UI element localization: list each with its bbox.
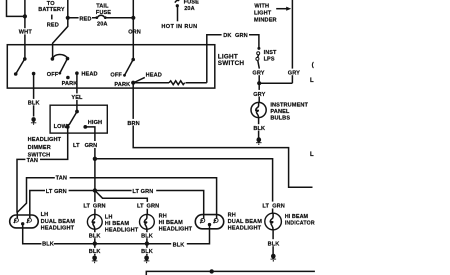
svg-text:GRN: GRN — [147, 204, 160, 210]
label BLK below bus RH — [140, 248, 153, 255]
label BLK above bus RH — [140, 232, 153, 239]
wire LT GRN to LH hi beam — [94, 159, 96, 215]
svg-text:FUSE: FUSE — [96, 10, 111, 16]
resistor rheostat — [133, 81, 207, 85]
svg-text:LT: LT — [73, 143, 80, 149]
svg-text:HEAD: HEAD — [81, 71, 97, 77]
wire BLK LH hi beam — [94, 229, 96, 255]
fuse TAIL FUSE 20A — [95, 4, 111, 28]
wire battery feed RED — [53, 0, 68, 59]
switch arm to HEAD (closed) — [133, 77, 145, 83]
svg-text:MINDER: MINDER — [254, 18, 277, 24]
label ORN — [128, 30, 141, 36]
node BLK pivot — [32, 72, 36, 76]
svg-text:PANEL: PANEL — [270, 109, 290, 115]
label INSTRUMENT PANEL BULBS — [270, 103, 308, 122]
label HI BEAM INDICATOR — [285, 214, 315, 226]
ground G101 — [31, 117, 36, 125]
wire LT GRN lower line — [30, 191, 204, 219]
svg-text:BLK: BLK — [253, 126, 265, 132]
svg-text:LH: LH — [105, 214, 113, 220]
wire WHT vertical — [24, 0, 26, 59]
headlight LH dual beam — [10, 215, 39, 228]
svg-text:HI BEAM: HI BEAM — [285, 214, 309, 220]
svg-text:HIGH: HIGH — [88, 120, 102, 126]
wire YEL to dimmer — [76, 73, 78, 111]
label BLK below bus LH — [88, 248, 101, 255]
svg-text:LT: LT — [262, 203, 269, 209]
node BLK junction LH — [93, 241, 97, 245]
label HEADLIGHT DIMMER SWITCH — [28, 137, 62, 158]
ground LH hi beam — [92, 255, 98, 263]
label INST LPS — [264, 50, 277, 62]
svg-text:DIMMER: DIMMER — [28, 145, 51, 151]
node LOW contact — [66, 125, 70, 129]
lamp instrument panel bulbs — [251, 102, 266, 117]
svg-text:HEADLIGHT: HEADLIGHT — [105, 228, 139, 234]
wire tail fuse feed — [68, 17, 96, 19]
wire BLK ground bus — [23, 224, 210, 244]
svg-text:LT GRN: LT GRN — [132, 189, 153, 195]
node junction RED feed — [66, 16, 70, 20]
svg-text:WHT: WHT — [19, 30, 33, 36]
wire LT GRN to RH hi beam — [95, 191, 147, 215]
svg-text:YEL: YEL — [71, 95, 83, 101]
svg-text:BLK: BLK — [42, 242, 54, 248]
node LT GRN junction — [93, 157, 97, 161]
svg-text:INST: INST — [264, 50, 277, 56]
svg-text:TAIL: TAIL — [96, 4, 109, 10]
switch headlight feed (battery) — [51, 55, 70, 75]
lamp RH hi beam — [140, 214, 155, 229]
svg-text:FUSE: FUSE — [184, 0, 199, 6]
label WITH LIGHT MINDER — [254, 4, 277, 24]
svg-text:GRY: GRY — [288, 71, 300, 77]
svg-text:LIGHT: LIGHT — [254, 11, 272, 17]
headlight dimmer switch box — [50, 105, 107, 133]
svg-text:RH: RH — [228, 213, 236, 219]
svg-text:GRY: GRY — [252, 71, 264, 77]
svg-text:BULBS: BULBS — [270, 116, 290, 122]
label LT GRN left — [45, 187, 69, 195]
svg-text:HEADLIGHT: HEADLIGHT — [159, 227, 193, 233]
node ground distribution — [210, 269, 214, 273]
wire HIGH to LT GRN — [85, 127, 95, 159]
svg-text:BRN: BRN — [127, 121, 139, 127]
label LH HI BEAM HEADLIGHT — [105, 214, 139, 233]
svg-text:OFF: OFF — [47, 72, 59, 78]
wire ORN vertical — [132, 0, 134, 60]
svg-text:DUAL BEAM: DUAL BEAM — [228, 219, 263, 225]
label BLK indicator — [267, 239, 281, 247]
node PARK junction BRN — [131, 81, 135, 85]
headlight RH dual beam — [195, 215, 223, 229]
wire GRY to instrument bulbs — [258, 83, 260, 102]
svg-text:PARK: PARK — [62, 81, 78, 87]
svg-text:LPS: LPS — [264, 57, 275, 63]
svg-text:20A: 20A — [184, 6, 195, 12]
node junction ORN — [131, 16, 135, 20]
svg-text:SWITCH: SWITCH — [218, 60, 245, 67]
svg-text:TO: TO — [47, 1, 55, 7]
svg-text:BLK: BLK — [89, 233, 101, 239]
svg-text:BLK: BLK — [268, 241, 280, 247]
svg-text:RED: RED — [47, 23, 59, 29]
label LT GRN dimmer — [72, 141, 97, 149]
svg-text:BLK: BLK — [89, 249, 101, 255]
wire fuse to ORN — [106, 17, 133, 19]
wire BRN park lamps feed — [133, 83, 312, 188]
wire LT GRN bus to indicator — [95, 159, 273, 214]
svg-text:GRN: GRN — [235, 33, 248, 39]
svg-text:GRN: GRN — [93, 204, 106, 210]
wire BLK to ground — [33, 74, 35, 117]
label RH DUAL BEAM HEADLIGHT — [228, 213, 263, 232]
wire GRY down to junction — [258, 61, 259, 84]
svg-text:HEADLIGHT: HEADLIGHT — [41, 226, 75, 232]
label WHT — [18, 28, 33, 35]
svg-text:DK: DK — [223, 33, 231, 39]
svg-text:BLK: BLK — [141, 249, 153, 255]
node HEAD contact — [75, 71, 79, 75]
node GRY junction — [257, 81, 261, 85]
svg-text:INDICATOR: INDICATOR — [285, 220, 315, 226]
svg-text:OFF: OFF — [110, 73, 122, 79]
label BLK bus left — [41, 241, 53, 248]
svg-text:RH: RH — [159, 214, 167, 220]
svg-text:WITH: WITH — [254, 4, 269, 10]
lamp LH hi beam — [87, 214, 102, 229]
label RH HI BEAM HEADLIGHT — [159, 214, 193, 233]
svg-text:LH: LH — [41, 212, 49, 218]
wire arrow to light minder line — [276, 7, 291, 11]
svg-text:RED: RED — [79, 16, 91, 22]
label TAN 2 — [55, 174, 70, 182]
switch dimmer arm — [67, 110, 79, 128]
switch park lamps (ORN) — [123, 58, 135, 77]
wire top-left corner feed — [7, 0, 25, 16]
wire GRY horizontal to light minder — [259, 82, 292, 84]
node LT GRN lower junction — [93, 188, 97, 192]
svg-text:LT GRN: LT GRN — [46, 189, 67, 195]
wire DK GRN — [207, 35, 259, 83]
svg-text:BLK: BLK — [141, 233, 153, 239]
svg-text:BATTERY: BATTERY — [38, 7, 65, 13]
svg-text:ORN: ORN — [128, 30, 141, 36]
wire TAN bus — [17, 178, 217, 219]
label RED — [79, 15, 92, 23]
switch dome contact (WHT) — [14, 57, 27, 76]
wire BLK indicator — [272, 230, 274, 255]
ground instrument bulbs — [256, 137, 262, 145]
svg-text:LT: LT — [83, 204, 90, 210]
svg-text:20A: 20A — [97, 22, 108, 28]
svg-text:TAN: TAN — [56, 176, 67, 182]
label LIGHT SWITCH — [218, 53, 245, 67]
ground indicator — [271, 254, 277, 262]
switch INST LPS — [256, 47, 261, 61]
node BLK junction RH — [145, 241, 149, 245]
svg-text:HI BEAM: HI BEAM — [105, 221, 130, 227]
label LT GRN above RH hi — [136, 202, 160, 210]
wire TAN low beam — [17, 127, 68, 218]
label DK GRN — [222, 31, 249, 39]
label LT GRN above LH hi — [83, 202, 107, 210]
label GRY 2 — [287, 69, 301, 77]
svg-text:GRN: GRN — [85, 143, 98, 149]
svg-text:GRN: GRN — [272, 203, 285, 209]
lamp hi beam indicator — [265, 213, 282, 230]
svg-text:DUAL BEAM: DUAL BEAM — [41, 219, 76, 225]
node junction WHT — [23, 14, 27, 18]
svg-text:LOW: LOW — [54, 124, 68, 130]
light switch box — [7, 45, 215, 88]
label LT GRN mid — [132, 187, 157, 195]
node PARK contact — [66, 76, 70, 80]
wire BLK RH hi beam — [146, 229, 148, 255]
svg-text:L: L — [310, 78, 314, 84]
svg-text:HEADLIGHT: HEADLIGHT — [28, 137, 62, 143]
label BRN — [127, 119, 142, 127]
svg-text:HEAD: HEAD — [146, 73, 162, 79]
wire GRY light minder vertical — [291, 0, 293, 83]
wire BLK instrument — [258, 118, 260, 139]
svg-text:GRY: GRY — [253, 92, 265, 98]
svg-text:INSTRUMENT: INSTRUMENT — [270, 103, 308, 109]
svg-text:BLK: BLK — [28, 101, 40, 107]
label TAN — [25, 157, 40, 164]
label BLK bus right — [171, 240, 187, 248]
label BLK — [27, 99, 41, 107]
wire ground distribution box — [146, 271, 315, 275]
label BLK instrument — [253, 124, 267, 132]
node HIGH contact — [83, 125, 87, 129]
svg-text:L: L — [310, 152, 314, 158]
svg-text:HI BEAM: HI BEAM — [159, 220, 184, 226]
label GRY 3 — [253, 90, 268, 98]
label LH DUAL BEAM HEADLIGHT — [41, 212, 76, 232]
svg-text:HOT IN RUN: HOT IN RUN — [161, 24, 197, 30]
svg-text:LT: LT — [137, 204, 144, 210]
svg-text:BLK: BLK — [173, 243, 185, 249]
label LT GRN indicator — [262, 202, 286, 210]
fuse FUSE 20A (hot in run) — [175, 0, 199, 21]
label BLK above bus LH — [88, 232, 101, 239]
label TO BATTERY RED — [38, 1, 65, 29]
svg-text:TAN: TAN — [27, 158, 38, 164]
svg-text:PARK: PARK — [114, 82, 130, 88]
svg-text:HEADLIGHT: HEADLIGHT — [228, 225, 262, 231]
label YEL — [71, 93, 85, 101]
ground RH hi beam — [144, 255, 150, 263]
label GRY — [252, 69, 267, 77]
